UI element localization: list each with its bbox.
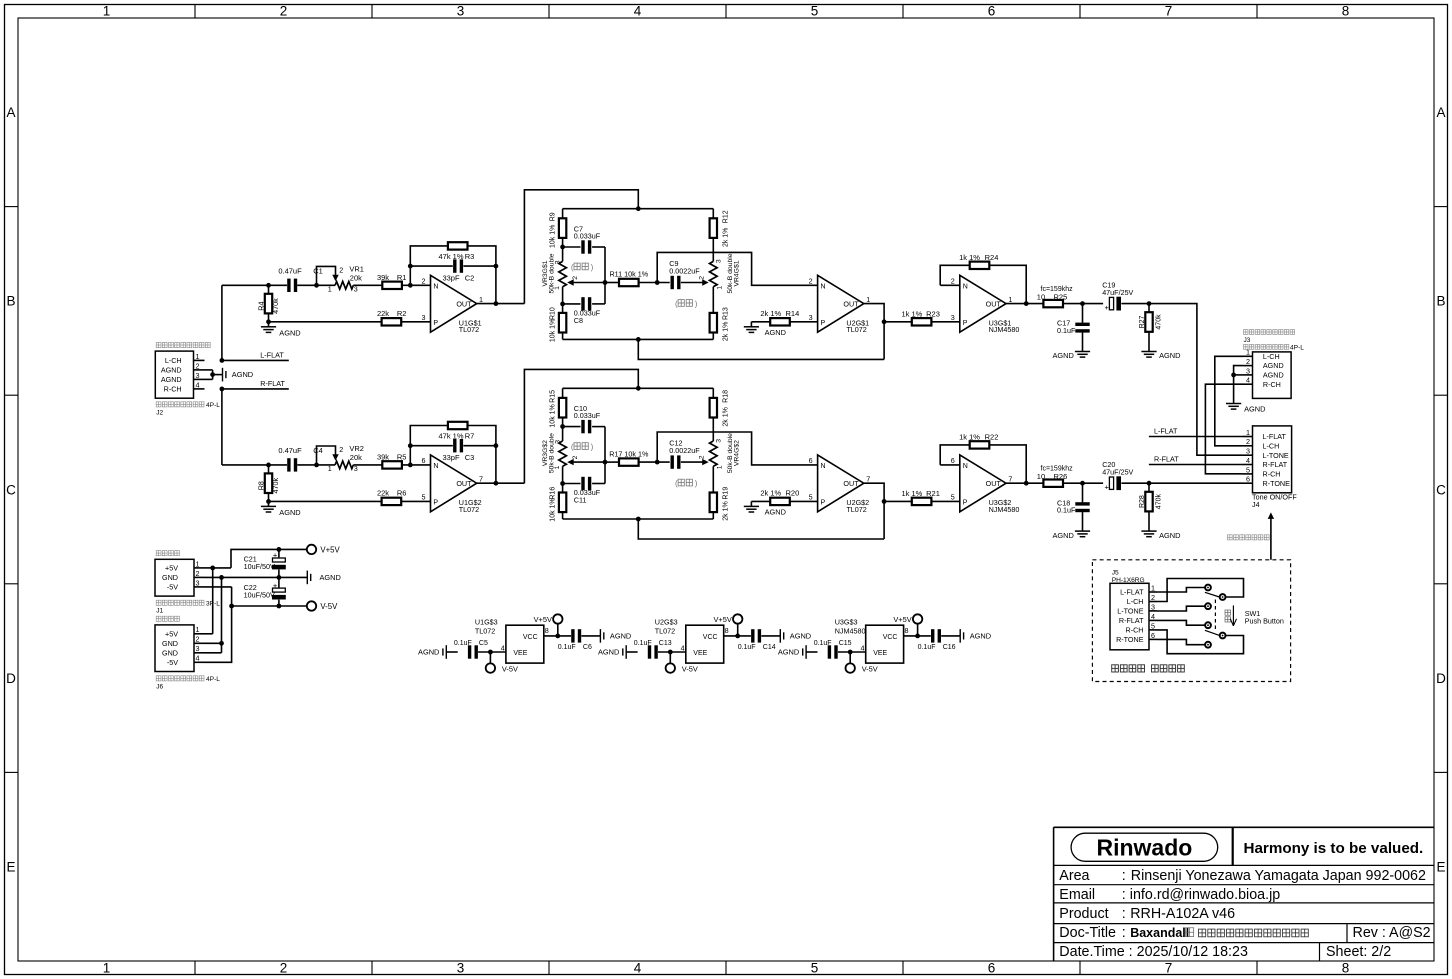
AGND flag left of C5 xyxy=(418,645,458,659)
AGND flag right of C16 xyxy=(960,629,991,643)
svg-text:2k 1%: 2k 1% xyxy=(723,228,730,247)
svg-text:N: N xyxy=(821,463,826,470)
svg-text:R8: R8 xyxy=(257,481,266,490)
AGND flag at J2 pins 2-3 xyxy=(205,368,254,382)
power port V+5V at U2G$3 xyxy=(714,614,743,636)
switch SW1 mechanical link xyxy=(1214,600,1216,630)
svg-text:2k 1%: 2k 1% xyxy=(760,489,781,498)
svg-text:R21: R21 xyxy=(926,489,940,498)
capacitor C15 0.1uF xyxy=(814,640,866,659)
wire J3 pins 2-3 AGND xyxy=(1231,366,1242,404)
svg-text:3: 3 xyxy=(196,578,200,587)
svg-text:AGND: AGND xyxy=(1159,351,1180,360)
svg-text:4P-L: 4P-L xyxy=(1290,344,1304,351)
capacitor C17 0.1uF xyxy=(1057,304,1090,352)
svg-text:2: 2 xyxy=(196,361,200,370)
feedback resistor R22 1k 1% xyxy=(940,433,1026,484)
svg-text:(: ( xyxy=(571,442,574,451)
svg-text:N: N xyxy=(963,463,968,470)
svg-text:J1: J1 xyxy=(156,608,163,615)
resistor R28 470k xyxy=(1139,483,1163,531)
svg-text:AGND: AGND xyxy=(232,370,253,379)
power port V+5V at U1G$3 xyxy=(534,614,563,636)
svg-text:1: 1 xyxy=(196,625,200,634)
svg-text:V+5V: V+5V xyxy=(714,615,732,624)
svg-text:VR1: VR1 xyxy=(349,264,364,273)
junction R4 bottom xyxy=(266,319,271,324)
svg-text:2: 2 xyxy=(196,635,200,644)
svg-text:3: 3 xyxy=(422,313,426,322)
svg-text:fc=159khz: fc=159khz xyxy=(1041,286,1074,293)
svg-text:V+5V: V+5V xyxy=(534,615,552,624)
wire R25 to C19 xyxy=(1063,301,1103,306)
wire J5 pin6 to contact xyxy=(1157,639,1205,644)
power port V-5V at U2G$3 xyxy=(666,652,698,673)
svg-text:R11 10k 1%: R11 10k 1% xyxy=(609,270,648,279)
svg-text:10k 1%: 10k 1% xyxy=(550,225,557,248)
wire tone top rail xyxy=(563,386,714,391)
svg-text:8: 8 xyxy=(905,626,909,635)
svg-text:AGND: AGND xyxy=(1244,405,1265,414)
wire C9 to treble pot wiper xyxy=(681,279,709,285)
resistor R3 47k 1% xyxy=(438,242,474,261)
wire VCC pin 8 xyxy=(724,634,751,639)
svg-text:L-FLAT: L-FLAT xyxy=(1120,588,1144,597)
svg-text:0.1uF: 0.1uF xyxy=(738,644,756,651)
resistor R20 2k 1% xyxy=(751,489,817,506)
svg-text:AGND: AGND xyxy=(161,366,182,375)
svg-text:+5V: +5V xyxy=(165,564,178,573)
svg-text:Sheet: 2/2: Sheet: 2/2 xyxy=(1326,944,1391,960)
svg-text:AGND: AGND xyxy=(1159,531,1180,540)
junction VEE node xyxy=(488,650,493,655)
potentiometer VR4G$1 50k-B (treble) xyxy=(698,253,740,313)
svg-text:8: 8 xyxy=(545,626,549,635)
svg-text:5: 5 xyxy=(422,492,426,501)
feedback resistor R24 1k 1% xyxy=(940,253,1026,304)
svg-text::: : xyxy=(1122,925,1126,941)
label treble (Japanese) xyxy=(675,299,698,308)
wire R17 to C12 xyxy=(639,460,670,465)
svg-text:R12: R12 xyxy=(723,210,730,223)
svg-text:AGND: AGND xyxy=(970,632,991,641)
svg-text:R-FLAT: R-FLAT xyxy=(1119,616,1144,625)
label J1 footprint xyxy=(156,600,220,615)
svg-text:V-5V: V-5V xyxy=(502,664,518,673)
svg-text:): ) xyxy=(591,442,594,451)
ground AGND below R27 xyxy=(1141,351,1180,360)
svg-text:R17 10k 1%: R17 10k 1% xyxy=(609,449,649,458)
svg-text:R-TONE: R-TONE xyxy=(1116,635,1144,644)
resistor R21 1k 1% xyxy=(901,489,939,505)
svg-text:R16: R16 xyxy=(550,487,557,500)
svg-text:E: E xyxy=(6,860,15,875)
sub-board dashed outline xyxy=(1092,560,1290,682)
svg-text:Email: Email xyxy=(1059,887,1095,903)
wire R26 to C20 xyxy=(1063,481,1103,486)
power port V+5V at U3G$3 xyxy=(893,614,922,636)
svg-text:6: 6 xyxy=(422,456,426,465)
label press (Japanese, rotated) xyxy=(1225,610,1231,622)
op-amp U3G$1 NJM4580 xyxy=(951,275,1020,334)
wire J5 pin2 loop to contact xyxy=(1157,579,1244,602)
wire AGND node to R2 xyxy=(269,321,382,323)
capacitor C12 0.0022uF xyxy=(669,439,700,469)
svg-text:0.1uF: 0.1uF xyxy=(814,640,832,647)
svg-text:TL072: TL072 xyxy=(459,505,479,514)
svg-text:0.1uF: 0.1uF xyxy=(1057,506,1076,515)
svg-text:L-TONE: L-TONE xyxy=(1117,607,1143,616)
svg-text:VCC: VCC xyxy=(523,634,538,641)
svg-text:2: 2 xyxy=(422,276,426,285)
svg-text:info.rd@rinwado.bioa.jp: info.rd@rinwado.bioa.jp xyxy=(1130,887,1280,903)
svg-text:J6: J6 xyxy=(156,683,163,690)
svg-text:+: + xyxy=(273,581,278,590)
svg-text:R18: R18 xyxy=(723,390,730,403)
wire U3G$2 out xyxy=(1006,481,1043,486)
svg-text:VR4G$1: VR4G$1 xyxy=(734,260,741,286)
svg-text:AGND: AGND xyxy=(279,328,300,337)
wire tone output L to J4 pin 3 xyxy=(1149,304,1243,456)
net label L-FLAT (output) xyxy=(1154,427,1178,436)
wire L-FLAT to J4 pin1 xyxy=(1149,436,1243,438)
resistor R18 2k 1% (top right) xyxy=(710,388,730,441)
svg-text:PH-1X6RG: PH-1X6RG xyxy=(1112,577,1145,584)
capacitor C4 0.47uF xyxy=(278,446,322,472)
svg-text:3: 3 xyxy=(715,439,722,443)
resistor R19 2k 1% (bottom right) xyxy=(710,487,730,521)
wire wiper row to R11 xyxy=(605,282,619,284)
label J3 footprint xyxy=(1244,344,1305,351)
svg-text:R23: R23 xyxy=(926,309,940,318)
label J3 reference xyxy=(1244,337,1251,344)
svg-text:N: N xyxy=(433,284,438,291)
svg-text:C15: C15 xyxy=(839,640,852,647)
wire J3 pin1 to J4 pin2 (L-CH) xyxy=(1215,356,1243,446)
svg-text:OUT: OUT xyxy=(456,300,472,309)
svg-text:C5: C5 xyxy=(479,640,488,647)
wire tone bottom rail return xyxy=(638,519,884,539)
AGND flag right of C14 xyxy=(780,629,811,643)
svg-text:1k 1%: 1k 1% xyxy=(959,433,980,442)
wire R-FLAT stub xyxy=(220,387,289,392)
svg-text:10k 1%: 10k 1% xyxy=(550,319,557,342)
svg-text:0.47uF: 0.47uF xyxy=(278,446,302,455)
capacitor C18 0.1uF xyxy=(1057,483,1090,531)
ground AGND below C17 xyxy=(1052,351,1090,360)
svg-text:TL072: TL072 xyxy=(846,505,866,514)
junction VEE node xyxy=(848,650,853,655)
svg-text:10uF/50V: 10uF/50V xyxy=(244,562,275,571)
svg-text:5: 5 xyxy=(811,4,819,19)
wire riser to tone top rail xyxy=(524,369,638,483)
wire J5 pin1 to contact xyxy=(1157,588,1205,593)
svg-text:R3: R3 xyxy=(465,252,475,261)
svg-text:R-CH: R-CH xyxy=(164,385,182,394)
svg-text:AGND: AGND xyxy=(778,648,799,657)
svg-text:D: D xyxy=(6,671,16,686)
capacitor C16 0.1uF xyxy=(918,629,961,651)
svg-text:J5: J5 xyxy=(1112,569,1119,576)
svg-text:7: 7 xyxy=(1008,474,1012,483)
svg-text:3: 3 xyxy=(951,313,955,322)
capacitor C5 0.1uF xyxy=(454,640,506,659)
svg-text:2: 2 xyxy=(1246,357,1250,366)
svg-text:1k 1%: 1k 1% xyxy=(959,253,980,262)
svg-text:2k 1%: 2k 1% xyxy=(723,322,730,341)
capacitor C2 33pF xyxy=(442,259,474,282)
svg-text:470k: 470k xyxy=(271,298,280,314)
title block row Product xyxy=(1059,906,1235,922)
wire R2 to opamp P xyxy=(401,321,430,323)
svg-text:R9: R9 xyxy=(550,212,557,221)
svg-text:20k: 20k xyxy=(350,453,362,462)
ground AGND at R14 xyxy=(744,322,786,337)
svg-text:4: 4 xyxy=(634,4,642,19)
svg-text:50k-B double: 50k-B double xyxy=(549,253,556,293)
svg-text:0.1uF: 0.1uF xyxy=(1057,326,1076,335)
svg-text:OUT: OUT xyxy=(843,300,859,309)
svg-text:0.1uF: 0.1uF xyxy=(454,640,472,647)
svg-text:C6: C6 xyxy=(583,644,592,651)
resistor R11 10k 1% xyxy=(609,270,648,286)
resistor R8 470k xyxy=(257,465,280,502)
slogan xyxy=(1244,840,1424,857)
resistor R5 39k xyxy=(377,453,407,469)
svg-text:C3: C3 xyxy=(465,453,475,462)
svg-text:4: 4 xyxy=(196,380,200,389)
label SW1 xyxy=(1245,609,1261,618)
wire -5V net xyxy=(205,587,307,662)
svg-text:7: 7 xyxy=(866,474,870,483)
svg-text:10: 10 xyxy=(1037,472,1045,481)
svg-text:47uF/25V: 47uF/25V xyxy=(1102,288,1133,297)
svg-text:6: 6 xyxy=(988,4,996,19)
svg-text:P: P xyxy=(963,500,968,507)
svg-text:5: 5 xyxy=(951,492,955,501)
svg-text:VR4G$2: VR4G$2 xyxy=(734,440,741,466)
wire tone output R to J4 pin 6 xyxy=(1149,482,1243,484)
ground AGND at R20 xyxy=(744,501,786,516)
svg-text:C14: C14 xyxy=(763,644,776,651)
svg-text:2: 2 xyxy=(339,266,343,275)
svg-text:39k: 39k xyxy=(377,273,389,282)
svg-text:2: 2 xyxy=(196,569,200,578)
label bass (Japanese) xyxy=(571,263,594,272)
connector J3 xyxy=(1243,348,1292,399)
label audio input (Japanese) xyxy=(156,343,210,348)
AGND flag left of C13 xyxy=(598,645,638,659)
arrow sub-board mount xyxy=(1268,512,1274,559)
wire U2G$2 out xyxy=(864,483,884,539)
wire R5 to opamp N xyxy=(402,463,431,468)
connector J1 xyxy=(155,559,205,596)
svg-text:AGND: AGND xyxy=(1263,361,1284,370)
ground AGND below C18 xyxy=(1052,531,1090,540)
capacitor C21 10uF/50V xyxy=(244,549,286,577)
svg-text:1: 1 xyxy=(103,961,111,976)
svg-text:8: 8 xyxy=(725,626,729,635)
svg-text:R-CH: R-CH xyxy=(1263,380,1281,389)
svg-text:50k-B double: 50k-B double xyxy=(549,433,556,473)
svg-text:3: 3 xyxy=(1246,447,1250,456)
AGND flag left of C15 xyxy=(778,645,818,659)
op-amp U1G$2 xyxy=(422,455,484,514)
wire VCC pin 8 xyxy=(904,634,931,639)
svg-text:(: ( xyxy=(675,299,678,308)
svg-text:1k 1%: 1k 1% xyxy=(901,309,922,318)
svg-text:OUT: OUT xyxy=(986,300,1002,309)
wire J5 pin4 to contact xyxy=(1157,620,1205,625)
label J6 footprint xyxy=(156,676,220,691)
svg-text:R26: R26 xyxy=(1054,472,1068,481)
title block xyxy=(1054,827,1434,961)
svg-text:8: 8 xyxy=(1342,4,1350,19)
svg-text:2: 2 xyxy=(1151,593,1155,602)
svg-text:2: 2 xyxy=(809,276,813,285)
junction tone left upper xyxy=(560,245,565,250)
label bass (Japanese) xyxy=(571,442,594,451)
svg-text:3: 3 xyxy=(457,4,465,19)
svg-text:R-CH: R-CH xyxy=(1263,470,1281,479)
capacitor C8 0.033uF (lower) xyxy=(563,297,605,325)
svg-text:7: 7 xyxy=(1165,961,1173,976)
power port V-5V at U3G$3 xyxy=(846,652,878,673)
svg-text:AGND: AGND xyxy=(320,573,341,582)
svg-text:R1: R1 xyxy=(397,273,407,282)
svg-text:2: 2 xyxy=(280,961,288,976)
wire tone bottom rail xyxy=(563,517,714,522)
svg-text:): ) xyxy=(695,299,698,308)
svg-text:4: 4 xyxy=(196,654,200,663)
svg-text:3: 3 xyxy=(715,259,722,263)
svg-text:Baxandall: Baxandall xyxy=(1130,926,1189,940)
net label R-FLAT xyxy=(260,379,285,388)
svg-text:2: 2 xyxy=(339,445,343,454)
svg-text:VR2: VR2 xyxy=(349,444,364,453)
svg-text:6: 6 xyxy=(988,961,996,976)
switch SW1 blade pole B xyxy=(1205,630,1220,635)
resistor R7 47k 1% xyxy=(438,422,474,441)
logo Rinwado xyxy=(1071,833,1218,861)
wire pot to R5 xyxy=(353,464,382,466)
svg-text:0.47uF: 0.47uF xyxy=(278,267,302,276)
connector J4 xyxy=(1243,426,1292,493)
svg-text:2: 2 xyxy=(698,455,705,459)
op-amp U2G$2 xyxy=(809,455,871,514)
svg-text:R24: R24 xyxy=(985,253,999,262)
svg-text:33pF: 33pF xyxy=(442,273,460,282)
junction tone left lower xyxy=(560,302,565,307)
svg-text:C1: C1 xyxy=(313,267,323,276)
svg-text:N: N xyxy=(821,284,826,291)
svg-text:R19: R19 xyxy=(723,487,730,500)
svg-text:1: 1 xyxy=(717,465,724,469)
svg-text:J4: J4 xyxy=(1252,500,1260,509)
resistor R9 10k 1% (top left) xyxy=(550,209,567,248)
wire L-FLAT stub xyxy=(220,358,289,363)
svg-text:V-5V: V-5V xyxy=(862,664,878,673)
ground AGND below R8 xyxy=(261,501,301,517)
wire capacitor riser xyxy=(603,427,608,484)
svg-text:P: P xyxy=(963,320,968,327)
svg-text:-5V: -5V xyxy=(167,658,178,667)
svg-text:R13: R13 xyxy=(723,307,730,320)
svg-text:1k 1%: 1k 1% xyxy=(901,489,922,498)
svg-text:R10: R10 xyxy=(550,307,557,320)
svg-text:Area: Area xyxy=(1059,868,1089,884)
svg-text:+: + xyxy=(273,551,278,560)
feedback network R7 C3 xyxy=(408,426,498,486)
svg-text:+: + xyxy=(1105,303,1110,312)
wire wiper row to R17 xyxy=(605,461,619,463)
ground AGND below R4 xyxy=(261,322,301,338)
feedback network R3 C2 xyxy=(408,246,498,306)
net label L-FLAT xyxy=(260,350,284,359)
svg-text:C: C xyxy=(1436,482,1446,497)
title block row Email xyxy=(1059,887,1280,903)
svg-text:U3G$3: U3G$3 xyxy=(835,617,858,626)
label J5 footprint PH-1X6RG xyxy=(1112,577,1145,584)
capacitor C7 0.033uF (upper) xyxy=(563,224,605,253)
svg-text:(: ( xyxy=(675,479,678,488)
wire input vertical xyxy=(221,285,223,360)
svg-text:Rinsenji Yonezawa Yamagata Jap: Rinsenji Yonezawa Yamagata Japan 992-006… xyxy=(1131,868,1426,884)
wire R-FLAT to J4 pin4 xyxy=(1149,464,1243,466)
svg-text:TL072: TL072 xyxy=(846,325,866,334)
junction R28 node xyxy=(1147,481,1152,486)
svg-text:3: 3 xyxy=(1151,602,1155,611)
label Push Button xyxy=(1245,617,1284,626)
svg-text:1: 1 xyxy=(1246,428,1250,437)
potentiometer VR1 20k xyxy=(314,264,364,293)
svg-text:2k 1%: 2k 1% xyxy=(723,407,730,426)
svg-text:U2G$3: U2G$3 xyxy=(655,617,678,626)
svg-text:U1G$3: U1G$3 xyxy=(475,617,498,626)
svg-text:4: 4 xyxy=(1151,612,1155,621)
svg-text:R28: R28 xyxy=(1139,495,1146,508)
svg-text:3: 3 xyxy=(809,313,813,322)
svg-text:10uF/50V: 10uF/50V xyxy=(244,591,275,600)
svg-text:L-CH: L-CH xyxy=(1127,597,1144,606)
wire to R21 xyxy=(884,500,912,502)
wire U2G$1 out xyxy=(864,304,884,360)
svg-text:R-CH: R-CH xyxy=(1126,626,1144,635)
resistor R26 10 xyxy=(1037,466,1073,487)
svg-text:AGND: AGND xyxy=(1052,531,1073,540)
potentiometer VR4G$2 50k-B (treble) xyxy=(698,433,740,493)
svg-text:6: 6 xyxy=(809,456,813,465)
power port V-5V xyxy=(307,601,338,611)
wire R1 to opamp N xyxy=(402,283,431,288)
svg-text:VEE: VEE xyxy=(693,650,707,657)
resistor R16 10k 1% (bottom left) xyxy=(550,484,567,522)
switch SW1 contacts xyxy=(1205,585,1225,648)
svg-text:2: 2 xyxy=(951,276,955,285)
svg-text:NJM4580: NJM4580 xyxy=(835,626,866,635)
svg-text:TL072: TL072 xyxy=(459,325,479,334)
svg-text:2: 2 xyxy=(572,455,579,459)
resistor R25 10 xyxy=(1037,286,1073,307)
svg-text:R22: R22 xyxy=(985,433,999,442)
wire R6 to opamp P xyxy=(401,500,430,502)
wire J3 pin4 to J4 pin5 (R-CH) xyxy=(1205,384,1242,474)
svg-text:R-FLAT: R-FLAT xyxy=(1154,455,1179,464)
label power input (Japanese) xyxy=(156,551,179,556)
svg-text:AGND: AGND xyxy=(1052,351,1073,360)
op-amp U2G$1 xyxy=(809,275,871,334)
label J5 reference xyxy=(1112,569,1119,576)
